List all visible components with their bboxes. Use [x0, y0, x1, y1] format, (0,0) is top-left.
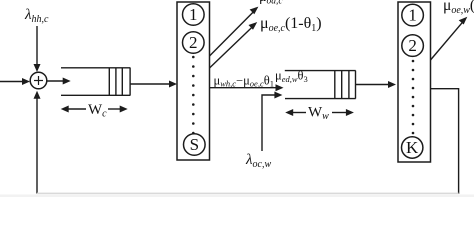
server 2 circle (box K): [402, 35, 424, 57]
node lambda_hh,c input arrow (vertical into adder): [34, 26, 41, 72]
wire left input arrow into adder: [0, 78, 30, 85]
svg-text:K: K: [406, 138, 419, 157]
queue Wc buffer: [61, 68, 130, 96]
server 1 circle (box K): [402, 4, 424, 26]
wire queue Ww to server box K: [356, 81, 396, 88]
svg-text:μwh,c−μoe,cθ1: μwh,c−μoe,cθ1: [214, 73, 274, 88]
svg-text:λhh,c: λhh,c: [24, 7, 49, 25]
dimension arrow Wc: [61, 106, 128, 113]
queue Ww buffer: [285, 71, 356, 99]
svg-text:2: 2: [408, 36, 417, 55]
svg-text:μoe,w(1: μoe,w(1: [443, 0, 474, 16]
svg-text:1: 1: [189, 5, 198, 24]
svg-text:2: 2: [189, 33, 198, 52]
arrow mu_oe,w out of box K: [431, 17, 468, 60]
svg-text:λoc,w: λoc,w: [245, 152, 271, 170]
dimension arrow Ww: [285, 109, 354, 116]
svg-text:1: 1: [408, 6, 417, 25]
wire feedback up-arrow into adder bottom: [34, 91, 41, 194]
server box K (multiserver station): [398, 2, 431, 162]
wire queue Wc to server box S: [130, 81, 177, 88]
server 1 circle (box S): [183, 4, 205, 26]
arrow mu_oe,c(1-theta1) out of box S: [210, 22, 258, 68]
server 2 circle (box S): [183, 32, 205, 54]
vertical dots (box K): [412, 60, 415, 135]
wire adder to queue Wc: [47, 78, 71, 85]
svg-text:S: S: [190, 135, 199, 154]
server S circle (box S): [184, 134, 206, 156]
arrow mu_od,c out of box S: [210, 7, 259, 56]
adder summing node (+): [30, 72, 47, 89]
server K circle (box K): [402, 137, 423, 158]
svg-text:Wc: Wc: [88, 102, 107, 120]
svg-text:μoe,c(1-θ1): μoe,c(1-θ1): [260, 15, 322, 34]
wire feedback from box K right edge: [431, 89, 459, 194]
wire lambda_oc,w elbow into queue Ww: [262, 92, 282, 152]
vertical dots (box S): [192, 56, 195, 135]
wire feedback bottom (faint): [37, 192, 459, 194]
server box S (multiserver station): [177, 2, 210, 160]
svg-text:Ww: Ww: [308, 105, 329, 123]
wire box S to queue Ww (mu_wh,c - mu_oe,c theta1): [210, 84, 284, 91]
svg-text:μod,c: μod,c: [259, 0, 283, 7]
